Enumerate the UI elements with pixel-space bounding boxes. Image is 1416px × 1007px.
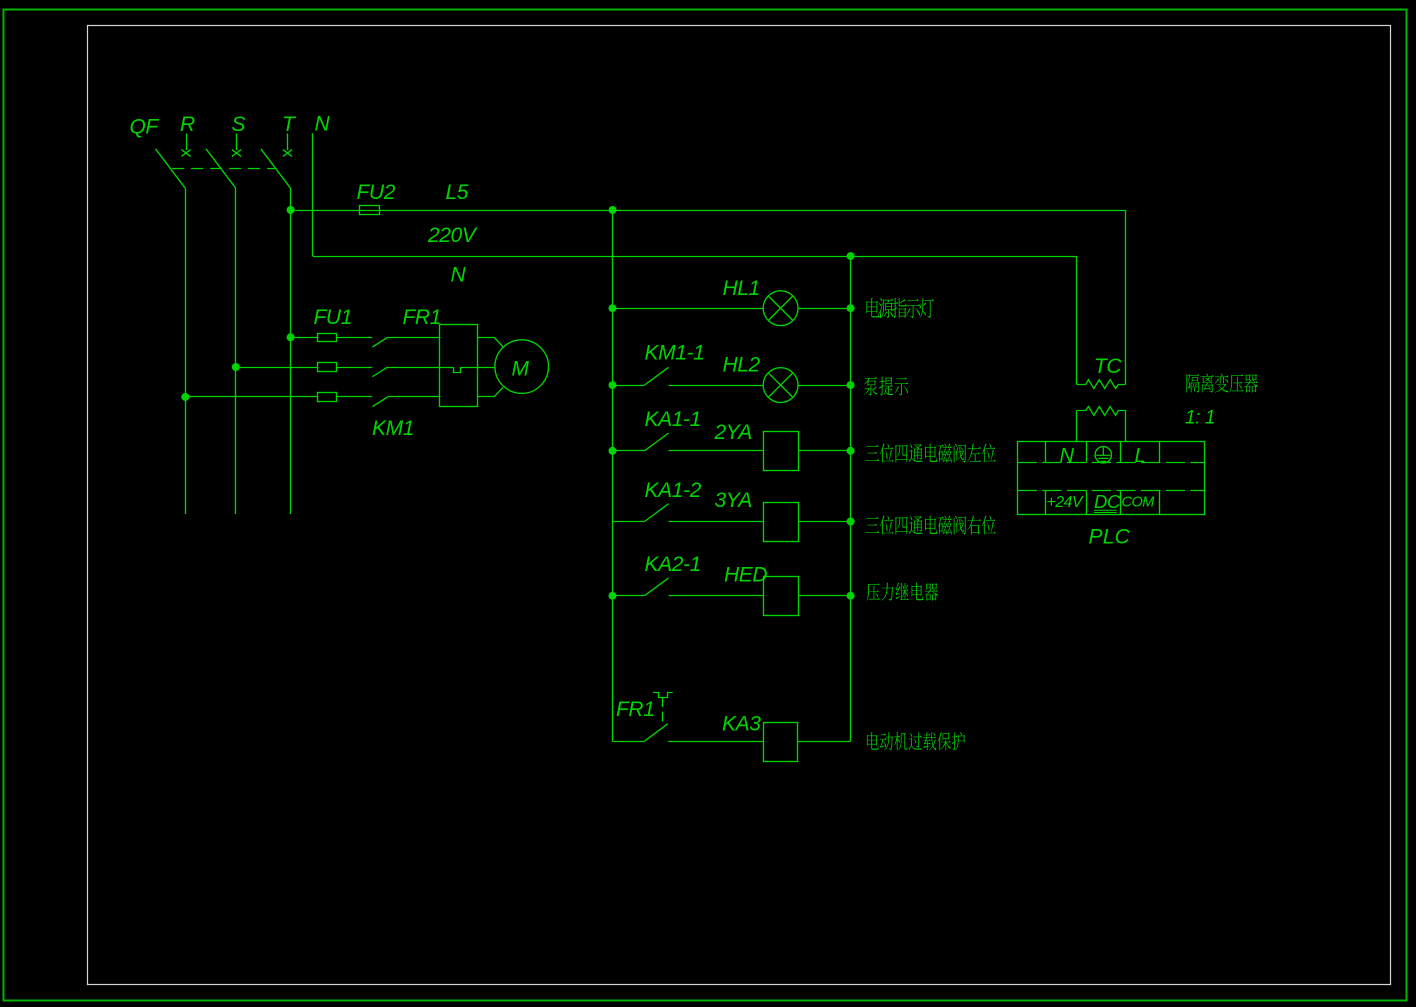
wire KA3 to right bus xyxy=(797,741,850,743)
fuse FU2 xyxy=(360,206,380,215)
wire N vertical from terminal xyxy=(312,133,314,256)
svg-text:PLC: PLC xyxy=(1089,526,1131,549)
wire control bus L (left) xyxy=(612,210,614,741)
terminal S lead-in xyxy=(236,134,238,151)
contact KM1 pole 1 blade xyxy=(372,337,387,347)
ground symbol (protective earth in circle) xyxy=(1095,447,1111,463)
coil 2YA xyxy=(764,432,799,471)
node junction HL1 right xyxy=(847,304,855,312)
wire motor lead 1 xyxy=(477,338,503,347)
PLC U1 terminal box outline xyxy=(1018,442,1205,515)
contact KA2-1 blade xyxy=(645,578,669,596)
wire KA2-1 row mid xyxy=(669,595,763,597)
wire KA3 row mid xyxy=(668,741,763,743)
node junction phase tap row 1 xyxy=(287,333,295,341)
svg-text:N: N xyxy=(1060,445,1075,467)
wire KM1 row 2 to FR1 box xyxy=(388,367,439,369)
contact KA1-2 blade xyxy=(645,504,669,522)
wire KA1-1 row mid xyxy=(669,450,763,452)
svg-text:TC: TC xyxy=(1094,355,1122,378)
svg-text:KA2-1: KA2-1 xyxy=(645,553,701,576)
svg-text:N: N xyxy=(315,113,331,136)
contact FR1 blade (NC thermal) xyxy=(645,724,668,742)
svg-text:KM1-1: KM1-1 xyxy=(645,342,705,365)
breaker QF mechanical link (dashed) xyxy=(172,168,275,170)
breaker QF pole 2 blade xyxy=(206,149,236,189)
node junction 2YA right xyxy=(847,447,855,455)
wire L5 horizontal xyxy=(291,210,1126,212)
svg-text:R: R xyxy=(180,113,195,136)
node junction KA2-1 left xyxy=(609,592,617,600)
transformer TC secondary winding xyxy=(1076,407,1126,416)
PLC bottom terminal dividers xyxy=(1046,491,1160,515)
wire KA1-2 row left xyxy=(613,521,645,523)
terminal R lead-in xyxy=(186,134,188,151)
wire FU1 row 2 left xyxy=(236,367,318,369)
node junction 3YA right xyxy=(847,518,855,526)
coil 3YA xyxy=(764,503,799,542)
label motor overload protection (Chinese) xyxy=(867,732,965,750)
svg-text:QF: QF xyxy=(130,116,160,139)
fuse FU1-3 xyxy=(318,393,337,402)
svg-text:+24V: +24V xyxy=(1047,494,1084,511)
wire HL2 row mid xyxy=(669,385,764,387)
svg-text:HED: HED xyxy=(724,564,767,587)
node junction HL2 left xyxy=(609,381,617,389)
wire FU1 row 1 to contact xyxy=(337,337,372,339)
node junction L5-control bus xyxy=(609,206,617,214)
wire 2YA to right bus xyxy=(799,450,851,452)
contact KA1-1 blade xyxy=(645,433,669,451)
node junction phase tap row 2 xyxy=(232,363,240,371)
wire control bus N (right) xyxy=(850,256,852,741)
wire TC secondary left to PLC N xyxy=(1076,411,1078,441)
label power indicator lamp (Chinese) xyxy=(866,298,934,318)
svg-text:M: M xyxy=(512,358,530,381)
coil HED xyxy=(764,577,799,616)
wire KM1 row 1 to FR1 box xyxy=(388,337,439,339)
label pump indicator (Chinese) xyxy=(864,377,908,396)
node junction HED right xyxy=(847,592,855,600)
label pressure relay (Chinese) xyxy=(867,583,939,601)
wire HL2 row right xyxy=(798,385,851,387)
thermal element link (dashed) xyxy=(662,697,664,723)
label 3-pos 4-way solenoid valve right (Chinese) xyxy=(865,516,995,535)
wire KM1 row 3 to FR1 box xyxy=(388,396,439,398)
svg-text:KA1-2: KA1-2 xyxy=(645,479,702,502)
PLC top terminal row bottom (dashed) xyxy=(1018,462,1205,464)
wire KA1-1 row left xyxy=(613,450,645,452)
label isolation transformer (Chinese) xyxy=(1186,374,1258,393)
label 3-pos 4-way solenoid valve left (Chinese) xyxy=(865,444,995,463)
svg-text:KA1-1: KA1-1 xyxy=(645,408,701,431)
svg-text:FU1: FU1 xyxy=(314,306,352,329)
coil KA3 xyxy=(764,723,798,762)
svg-text:L5: L5 xyxy=(446,181,469,204)
fuse FU1-1 xyxy=(318,334,337,342)
wire FU1 row 3 to contact xyxy=(337,396,372,398)
wire KA3 row left xyxy=(613,741,645,743)
svg-text:HL2: HL2 xyxy=(723,354,761,377)
wire HED to right bus xyxy=(799,595,851,597)
DC underline double xyxy=(1094,510,1117,512)
svg-text:KM1: KM1 xyxy=(372,417,414,440)
node junction KA1-1 left xyxy=(609,447,617,455)
svg-text:T: T xyxy=(282,113,297,136)
wire KA2-1 row left xyxy=(613,595,645,597)
contact KM1 pole 2 blade xyxy=(372,367,387,377)
node junction T-L5 xyxy=(287,206,295,214)
node junction HL2 right xyxy=(847,381,855,389)
contact KM1-1 blade xyxy=(645,367,669,385)
svg-text:S: S xyxy=(232,113,246,136)
wire HL1 row right xyxy=(798,308,851,310)
wire FU1 row 3 left xyxy=(185,396,317,398)
wire HL1 row left xyxy=(613,308,764,310)
node junction N-right bus xyxy=(847,252,855,260)
svg-text:FR1: FR1 xyxy=(403,306,441,329)
wire motor lead 3 xyxy=(477,387,503,396)
wire phase S vertical xyxy=(235,188,237,514)
wire FU1 row 2 to contact xyxy=(337,367,372,369)
breaker QF pole 3 blade xyxy=(261,149,291,189)
svg-text:COM: COM xyxy=(1122,494,1156,510)
svg-text:220V: 220V xyxy=(427,224,478,247)
svg-text:N: N xyxy=(451,264,467,287)
lamp HL1 xyxy=(763,291,798,326)
transformer TC primary winding xyxy=(1076,380,1126,389)
wire L5 to TC primary (vertical) xyxy=(1125,210,1127,384)
contact KM1 pole 3 blade xyxy=(372,397,387,407)
thermal relay FR1 box xyxy=(440,325,478,407)
svg-text:FU2: FU2 xyxy=(357,181,396,204)
svg-text:3YA: 3YA xyxy=(715,489,752,512)
wire FU1 row 1 left xyxy=(291,337,318,339)
lamp HL2 xyxy=(763,368,798,403)
svg-text:1: 1: 1: 1 xyxy=(1185,408,1215,429)
node junction phase tap row 3 xyxy=(181,393,189,401)
fuse FU1-2 xyxy=(318,363,337,372)
wire TC secondary right to PLC L xyxy=(1125,411,1127,441)
svg-text:DC: DC xyxy=(1094,491,1121,512)
wire KA1-2 row mid xyxy=(669,521,763,523)
svg-text:FR1: FR1 xyxy=(616,698,654,721)
node junction HL1 left xyxy=(609,304,617,312)
terminal T lead-in xyxy=(287,134,289,151)
svg-text:HL1: HL1 xyxy=(723,277,760,300)
svg-text:L: L xyxy=(1135,445,1146,467)
wire row 2 through FR1 with heater notch xyxy=(439,368,495,373)
wire HL2 row left xyxy=(613,385,645,387)
wire 3YA to right bus xyxy=(799,521,851,523)
wire N horizontal xyxy=(313,256,1077,258)
PLC bottom terminal row top (dashed) xyxy=(1018,490,1205,492)
svg-text:KA3: KA3 xyxy=(722,713,761,736)
thermal overload element symbol xyxy=(653,693,673,698)
wire phase T vertical xyxy=(290,188,292,514)
svg-text:2YA: 2YA xyxy=(714,421,752,444)
wire N to TC primary (vertical) xyxy=(1076,256,1078,384)
PLC top terminal dividers xyxy=(1046,442,1160,463)
breaker QF pole 1 blade xyxy=(156,149,186,189)
motor M circle xyxy=(495,340,549,394)
wire phase R vertical xyxy=(185,188,187,514)
